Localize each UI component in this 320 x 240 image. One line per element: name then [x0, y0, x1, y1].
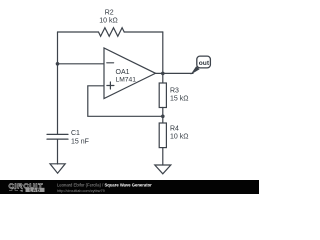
- wire output node to out flag: [163, 72, 193, 74]
- svg-text:LAB: LAB: [29, 187, 40, 192]
- svg-text:15 kΩ: 15 kΩ: [170, 96, 188, 103]
- footer logo waveform: [9, 189, 18, 191]
- svg-text:out: out: [199, 60, 210, 67]
- footer logo LAB badge: [26, 188, 45, 192]
- op-amp output lead: [156, 72, 163, 74]
- out flag tail: [190, 66, 199, 75]
- wire C1 to ground: [57, 139, 59, 164]
- wire R3 to tap node: [162, 108, 164, 124]
- svg-text:10 kΩ: 10 kΩ: [99, 17, 117, 24]
- output node junction dot: [161, 72, 165, 76]
- op-amp OA1 body: [104, 48, 156, 99]
- wire right rail to output node: [162, 32, 164, 73]
- op-amp minus symbol: [107, 62, 114, 64]
- op-amp plus symbol: [107, 82, 114, 89]
- wire node A to inverting input: [58, 63, 105, 65]
- ground under R4: [155, 165, 171, 174]
- wire top left segment: [58, 31, 99, 33]
- svg-text:R2: R2: [105, 10, 114, 17]
- divider tap junction dot: [161, 115, 165, 119]
- wire top right segment: [124, 31, 163, 33]
- svg-text:10 kΩ: 10 kΩ: [170, 134, 188, 141]
- svg-text:http://circuitlab.com/cytbw79: http://circuitlab.com/cytbw79: [57, 189, 105, 193]
- svg-text:C1: C1: [71, 130, 80, 137]
- wire output node to R3: [162, 73, 164, 83]
- wire left rail: [57, 32, 59, 134]
- svg-text:15 nF: 15 nF: [71, 138, 89, 145]
- out flag box: [197, 56, 211, 68]
- svg-text:R4: R4: [170, 126, 179, 133]
- wire R4 to ground: [162, 148, 164, 165]
- footer bar: [0, 180, 259, 194]
- svg-text:Leonard Ebifor (Fercila) / Squ: Leonard Ebifor (Fercila) / Square Wave G…: [57, 182, 152, 187]
- svg-text:R3: R3: [170, 88, 179, 95]
- resistor R3: [159, 83, 166, 108]
- ground under C1: [50, 164, 65, 173]
- svg-text:OA1: OA1: [116, 69, 130, 76]
- wire non-inverting input to divider tap: [88, 86, 163, 117]
- svg-text:LM741: LM741: [116, 76, 137, 83]
- resistor R4: [159, 123, 166, 148]
- capacitor C1: [47, 133, 68, 135]
- resistor R2: [99, 28, 125, 37]
- node A junction dot: [56, 62, 60, 66]
